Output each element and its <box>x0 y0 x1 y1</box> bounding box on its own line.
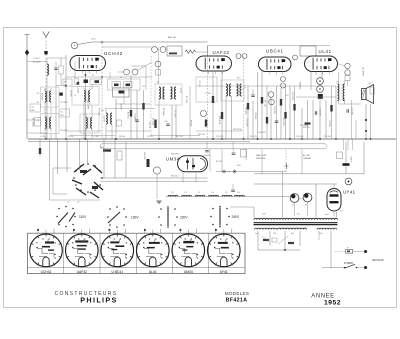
small box <box>337 152 343 159</box>
svg-text:UY41: UY41 <box>343 190 356 195</box>
wire <box>103 139 105 178</box>
wire <box>231 96 233 139</box>
wire <box>221 71 223 139</box>
svg-text:SECTEUR: SECTEUR <box>372 259 384 262</box>
wire <box>50 199 101 201</box>
tube socket UCH42 <box>30 234 63 267</box>
svg-text:SRY.12N6: SRY.12N6 <box>233 129 242 131</box>
resistor <box>288 242 294 244</box>
wire main bus <box>28 138 396 140</box>
wire <box>116 103 151 105</box>
dark blob <box>318 94 323 99</box>
IF T2 box lower <box>80 114 99 133</box>
svg-text:S2: S2 <box>120 77 122 79</box>
svg-text:AT.7E08: AT.7E08 <box>151 118 154 125</box>
IF transformer T4 right <box>237 84 239 96</box>
wire <box>307 100 309 139</box>
svg-text:R14.2K2: R14.2K2 <box>198 134 205 136</box>
wire PV line <box>216 171 286 173</box>
wire <box>27 132 47 134</box>
tube UM34 <box>178 156 208 172</box>
svg-text:AT 5608: AT 5608 <box>33 61 41 64</box>
wire <box>145 66 147 90</box>
svg-text:R3.1M: R3.1M <box>68 136 74 138</box>
wire <box>276 86 278 139</box>
svg-text:UCH42: UCH42 <box>41 270 52 274</box>
svg-text:R30: R30 <box>100 147 103 149</box>
svg-text:A: A <box>73 44 75 48</box>
svg-text:WR.9/08: WR.9/08 <box>143 152 145 159</box>
svg-text:KEL/7EB: KEL/7EB <box>171 154 179 156</box>
wire <box>245 149 247 160</box>
IF T1 box upper <box>41 87 60 107</box>
wire <box>102 46 152 48</box>
wire <box>118 71 124 73</box>
svg-text:R41.470K: R41.470K <box>218 116 220 125</box>
junction dot <box>221 138 223 140</box>
wire <box>333 184 335 189</box>
wire <box>335 86 337 139</box>
wire <box>66 130 102 132</box>
tube socket UAF42 <box>66 234 99 267</box>
svg-text:UAF42: UAF42 <box>77 270 87 274</box>
resistor <box>212 96 214 103</box>
svg-text:ANNEE: ANNEE <box>311 293 334 299</box>
wire <box>66 139 68 172</box>
coupling box <box>108 79 141 90</box>
small box <box>345 76 350 81</box>
wire <box>257 72 259 139</box>
svg-text:3N9: 3N9 <box>31 110 34 112</box>
svg-text:R4.100K: R4.100K <box>245 107 247 115</box>
voltage selector 240V <box>212 208 214 210</box>
IF T4 box <box>221 80 244 101</box>
svg-text:UL41: UL41 <box>319 49 332 54</box>
switch terminal <box>364 266 367 269</box>
svg-text:58: 58 <box>37 102 39 104</box>
wire <box>338 64 345 67</box>
wire <box>50 134 52 140</box>
junction dot <box>335 138 337 140</box>
resistor <box>330 105 332 112</box>
svg-text:MSMTSBL: MSMTSBL <box>256 158 267 160</box>
inner box a <box>112 82 121 88</box>
socket row divider <box>63 233 65 273</box>
earth terminal blob <box>44 51 47 54</box>
padder circle C7 <box>124 69 130 75</box>
wire <box>111 125 113 140</box>
svg-text:UBC41: UBC41 <box>266 49 284 54</box>
junction dot <box>65 85 67 87</box>
wire main bus lower <box>28 141 250 143</box>
wire <box>247 86 249 139</box>
wire <box>310 72 312 91</box>
inner dark bar b <box>126 84 131 87</box>
trimmer capacitor C1 <box>54 68 58 69</box>
svg-text:C32/10N: C32/10N <box>319 108 321 116</box>
capacitor C32 <box>315 111 316 115</box>
wire <box>212 71 214 139</box>
svg-text:DA.220RM: DA.220RM <box>87 100 90 110</box>
wire (dashed) <box>150 56 152 135</box>
wire <box>330 231 332 268</box>
junction dot <box>365 138 367 140</box>
wire <box>171 105 173 139</box>
svg-text:C17.91K: C17.91K <box>174 110 176 118</box>
node circle <box>281 83 286 88</box>
wire <box>365 104 367 139</box>
wire <box>261 149 263 174</box>
svg-text:C9: C9 <box>60 112 62 114</box>
svg-text:L.43.1N: L.43.1N <box>103 115 105 122</box>
wire <box>105 109 107 114</box>
svg-text:C1.4N: C1.4N <box>205 93 211 95</box>
wire <box>301 149 303 174</box>
padding capacitor C2 <box>59 66 63 74</box>
IF T2 box upper <box>72 87 99 106</box>
wire <box>65 55 67 139</box>
wire <box>232 142 234 149</box>
inner dark bar a <box>114 84 119 87</box>
resistor <box>293 104 295 111</box>
inner box b <box>124 82 133 88</box>
svg-text:C12.3N1: C12.3N1 <box>60 102 67 104</box>
wire <box>56 85 66 87</box>
wire <box>254 183 337 185</box>
node circle <box>345 70 350 75</box>
small box <box>117 120 122 126</box>
small box <box>241 150 247 158</box>
wire <box>156 174 158 199</box>
power transformer primary <box>254 218 338 219</box>
wire <box>123 90 125 104</box>
wire <box>344 99 346 104</box>
svg-text:UAF42: UAF42 <box>213 50 230 55</box>
node A circle <box>71 42 77 48</box>
wire <box>182 172 184 183</box>
wire <box>114 139 116 178</box>
node circle <box>345 63 350 68</box>
wire <box>39 139 41 156</box>
node circle <box>153 167 160 174</box>
wire <box>299 198 303 200</box>
voltage selector 130V <box>109 208 111 210</box>
svg-text:U BC41: U BC41 <box>112 270 124 274</box>
wire <box>44 107 46 114</box>
IF transformer T1 lower <box>45 118 46 129</box>
padder circle C8 <box>132 69 138 75</box>
diagonal wire <box>138 62 153 70</box>
svg-text:C22.10N: C22.10N <box>296 136 304 138</box>
svg-text:L4: L4 <box>92 75 94 77</box>
svg-text:MODELES: MODELES <box>225 291 250 296</box>
wire <box>270 97 272 139</box>
tube socket 6Y41 <box>208 234 241 267</box>
svg-text:AT.5608: AT.5608 <box>41 93 44 100</box>
wire <box>257 231 259 250</box>
comb ticks <box>343 139 345 150</box>
wire <box>325 100 327 139</box>
band switch frame <box>53 168 71 194</box>
wire top bus 2 <box>208 45 331 47</box>
wire <box>258 249 300 251</box>
electrolytic 2x50uF <box>345 142 347 163</box>
pilot lamp L7 <box>290 194 299 203</box>
wire <box>100 180 208 182</box>
wire rounded feedback loop <box>100 144 327 149</box>
wire <box>284 231 286 250</box>
small box dark bar <box>95 80 100 83</box>
wire <box>254 173 364 175</box>
node circle big <box>317 78 324 85</box>
wire <box>221 149 223 172</box>
wire <box>109 72 111 79</box>
resistor <box>266 117 268 124</box>
wire slant <box>278 236 288 244</box>
svg-text:C23.220P: C23.220P <box>291 92 293 101</box>
resistor horizontal <box>305 122 311 124</box>
svg-text:CB.3N1: CB.3N1 <box>70 90 72 97</box>
wire <box>319 99 321 139</box>
capacitor <box>205 151 209 152</box>
svg-text:UCH42: UCH42 <box>104 51 123 56</box>
filter box bar <box>119 91 125 94</box>
svg-text:L5: L5 <box>74 95 76 97</box>
svg-text:6Y41: 6Y41 <box>220 270 228 274</box>
svg-text:C1 4K7: C1 4K7 <box>33 58 41 60</box>
wire <box>261 72 263 140</box>
svg-text:PHILIPS: PHILIPS <box>80 296 117 305</box>
arrow tick <box>285 163 289 169</box>
wire <box>55 90 57 139</box>
svg-text:C33.47N: C33.47N <box>258 132 266 134</box>
component <box>39 148 41 154</box>
wire <box>150 135 200 137</box>
wire <box>207 46 209 57</box>
resistor <box>154 120 156 129</box>
wire <box>158 99 160 139</box>
svg-text:RO.3N5B: RO.3N5B <box>300 125 308 127</box>
resistor <box>261 97 263 104</box>
node circle PV <box>223 170 226 173</box>
grid capacitor blob under UCH42 <box>84 80 89 84</box>
wire <box>189 86 191 139</box>
svg-text:C25.5N: C25.5N <box>254 112 256 119</box>
wire <box>312 100 314 139</box>
svg-text:C26.220P: C26.220P <box>246 118 248 127</box>
svg-text:R11.27K: R11.27K <box>176 136 184 138</box>
wire <box>318 231 320 240</box>
wire <box>289 196 290 199</box>
power transformer core <box>254 223 338 225</box>
wire top bus <box>93 41 208 43</box>
resistor <box>221 112 223 119</box>
pilot lamp above UY41 <box>345 178 352 185</box>
wire <box>115 99 117 139</box>
svg-text:R12: R12 <box>237 78 240 80</box>
wire <box>296 96 336 98</box>
IF transformer T3 right <box>171 87 173 99</box>
svg-text:RT.5608: RT.5608 <box>98 108 100 115</box>
antenna lead-in wire <box>26 35 28 140</box>
choke L1 <box>195 195 205 196</box>
svg-text:C4: C4 <box>31 107 33 109</box>
wire <box>125 142 127 178</box>
capacitor <box>275 121 279 122</box>
wire riser <box>282 172 284 218</box>
wire <box>106 130 151 132</box>
resistor box <box>75 79 79 85</box>
resistor <box>103 149 111 151</box>
wire <box>105 108 155 110</box>
wire <box>252 101 254 139</box>
wire <box>269 231 271 246</box>
choke L2 <box>182 195 192 196</box>
wire <box>91 84 93 90</box>
svg-text:1N2: 1N2 <box>60 115 63 117</box>
fuse terminal <box>364 250 367 253</box>
coil pair mid <box>106 113 107 124</box>
wire <box>333 211 335 216</box>
voltage selector 110V <box>58 208 60 210</box>
resistor <box>247 103 249 110</box>
svg-text:C8.L7: C8.L7 <box>91 39 97 41</box>
svg-text:C11.2N: C11.2N <box>147 136 154 138</box>
IF transformer T3 left <box>159 87 161 99</box>
svg-text:R8.56K: R8.56K <box>119 136 126 138</box>
junction dot <box>365 130 367 132</box>
tube UY41 <box>327 189 341 212</box>
wire <box>84 71 86 140</box>
wire riser <box>253 207 255 218</box>
junction dot <box>365 119 367 121</box>
junction dot <box>212 138 214 140</box>
tube UCH42 <box>70 56 106 74</box>
svg-text:C2.56: C2.56 <box>40 136 45 138</box>
wire <box>131 65 146 67</box>
diagonal wire <box>238 87 246 92</box>
small box <box>35 118 41 127</box>
speaker HP <box>362 85 374 104</box>
resistor dark <box>147 159 150 167</box>
resistor <box>142 103 144 110</box>
svg-text:R19.150: R19.150 <box>324 136 331 138</box>
junction dot <box>270 138 272 140</box>
capacitor <box>251 95 255 96</box>
small box <box>156 70 161 75</box>
svg-text:UL41: UL41 <box>149 270 157 274</box>
svg-text:C19.47N: C19.47N <box>216 136 224 138</box>
socket row divider <box>99 233 101 273</box>
svg-text:C13: C13 <box>142 86 145 88</box>
wire (dashed) <box>207 56 209 139</box>
wire <box>301 108 303 139</box>
svg-text:C29.10N: C29.10N <box>351 107 353 115</box>
wire <box>49 139 51 200</box>
svg-text:KEL/140: KEL/140 <box>171 176 178 178</box>
socket row divider <box>135 233 137 273</box>
socket row divider <box>208 233 210 273</box>
wire <box>209 149 211 172</box>
tube socket UL41 <box>137 234 170 267</box>
wire <box>280 88 282 139</box>
node circle <box>201 111 207 117</box>
wire slant <box>262 236 270 242</box>
svg-text:R24.470: R24.470 <box>303 127 310 129</box>
junction dot <box>65 138 67 140</box>
svg-text:240V: 240V <box>232 215 240 219</box>
wire <box>27 61 47 63</box>
wire <box>351 100 353 139</box>
capacitor <box>347 109 348 113</box>
svg-text:C9: C9 <box>37 120 39 122</box>
svg-text:L10: L10 <box>101 110 104 112</box>
svg-text:220V: 220V <box>180 215 188 219</box>
svg-text:C27: C27 <box>156 82 159 84</box>
wire <box>74 62 76 79</box>
blob <box>59 93 63 96</box>
wire <box>370 104 372 139</box>
resistor <box>263 239 269 241</box>
svg-text:C24.10N: C24.10N <box>273 106 275 114</box>
voltage selector 220V <box>160 208 162 210</box>
IF transformer T2 upper <box>84 91 85 102</box>
wire <box>130 75 132 139</box>
value box <box>63 79 72 86</box>
power transformer secondary 1 <box>255 228 277 229</box>
wire <box>196 130 243 132</box>
filter box <box>113 88 130 97</box>
svg-text:130V: 130V <box>131 215 139 219</box>
wire <box>289 86 291 139</box>
small box <box>117 151 122 160</box>
svg-text:9u1: 9u1 <box>297 214 300 216</box>
wire <box>100 177 208 179</box>
junction dot <box>301 138 303 140</box>
svg-text:UM34: UM34 <box>184 270 193 274</box>
wire <box>57 139 59 174</box>
tube socket U BC41 <box>101 234 134 267</box>
wire (dashed) tuning gang <box>101 43 103 139</box>
resistor <box>130 110 132 117</box>
svg-text:INTERR.: INTERR. <box>344 262 354 265</box>
box above UL41 <box>300 46 316 56</box>
svg-text:R17.1M: R17.1M <box>264 100 266 107</box>
svg-text:BF421A: BF421A <box>226 298 248 304</box>
capacitor <box>232 153 236 154</box>
svg-text:R9.27K: R9.27K <box>148 122 150 129</box>
wire <box>299 231 301 246</box>
wire <box>230 206 254 208</box>
tube UBC41 <box>259 57 292 75</box>
wire <box>47 57 66 59</box>
junction dot <box>257 138 259 140</box>
small box <box>272 238 277 242</box>
oscillator box <box>167 46 182 56</box>
junction dot <box>289 138 291 140</box>
svg-text:CV.91: CV.91 <box>179 88 181 93</box>
wire <box>105 125 107 140</box>
IF transformer T1 upper <box>45 91 46 102</box>
wire <box>66 76 102 78</box>
svg-text:R22.2M2: R22.2M2 <box>282 118 284 126</box>
capacitor <box>135 120 139 121</box>
wire <box>175 105 177 139</box>
pilot lamp L8 <box>303 193 312 202</box>
small box right edge <box>370 87 374 94</box>
resistor <box>205 120 207 127</box>
svg-text:R15.47K: R15.47K <box>250 136 258 138</box>
